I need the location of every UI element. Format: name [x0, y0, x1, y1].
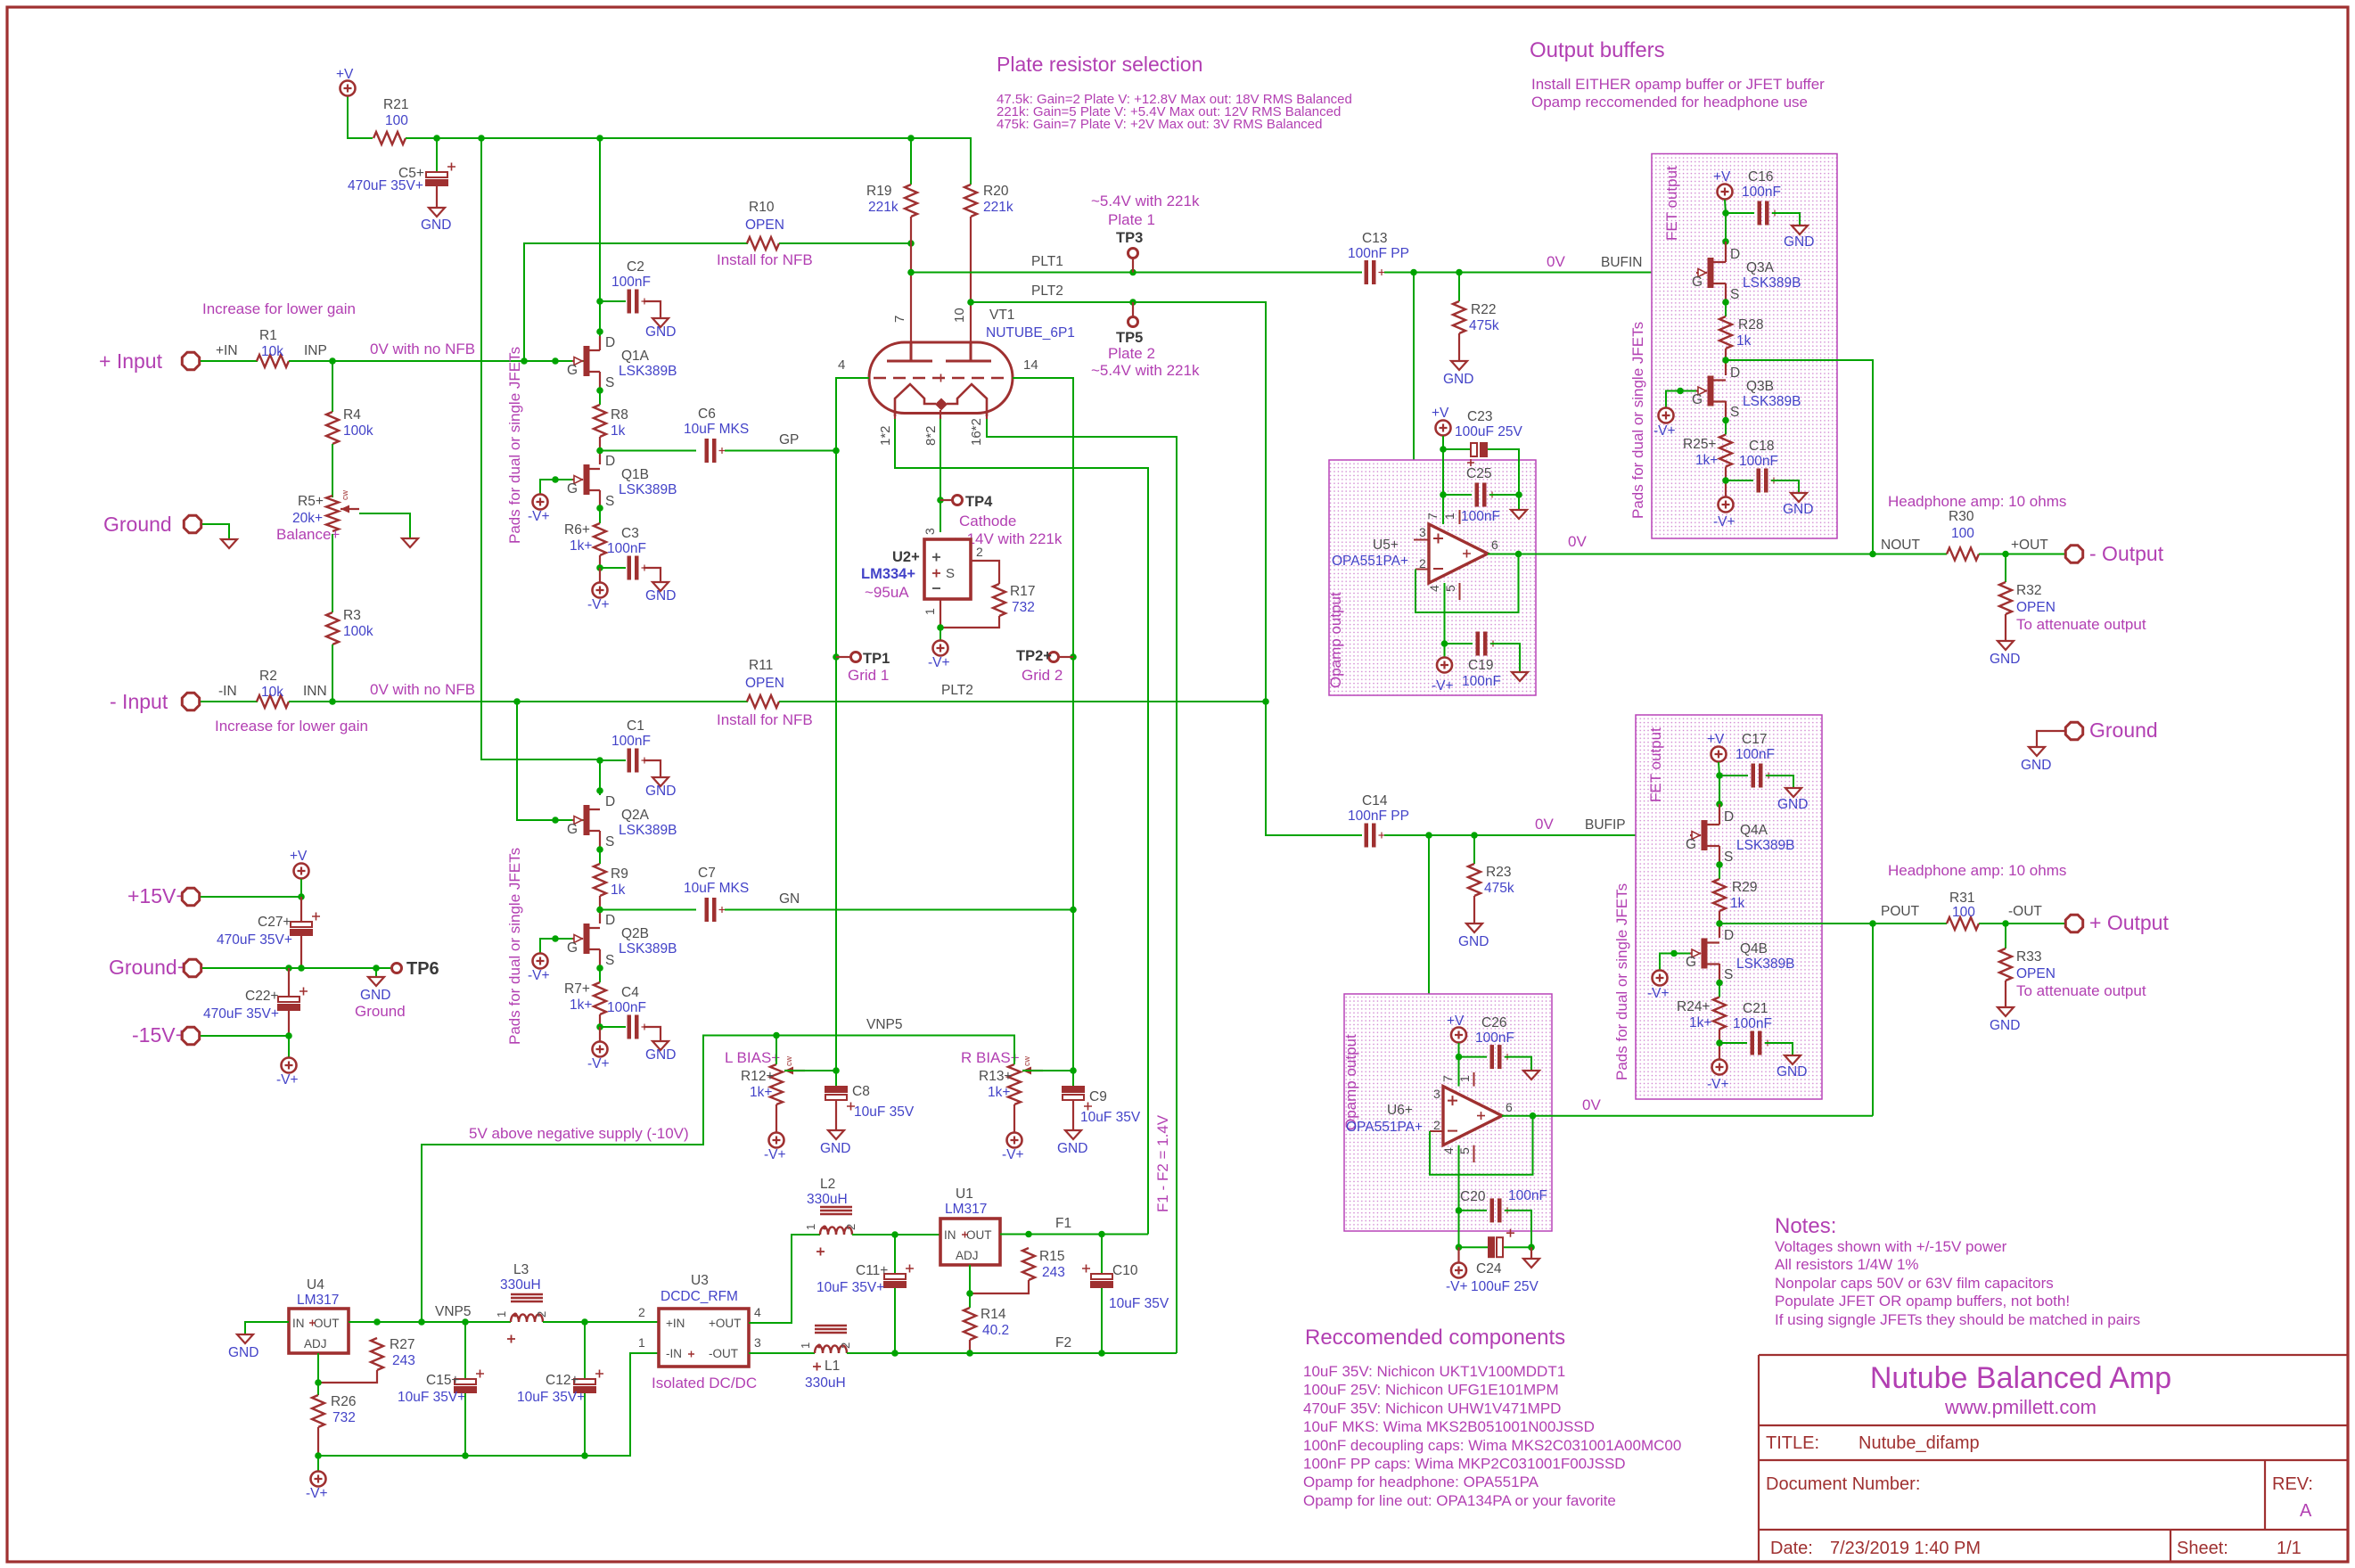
tube grid dashed electrode	[874, 377, 1008, 380]
svg-text:C20: C20	[1460, 1189, 1486, 1204]
svg-text:OUT: OUT	[314, 1317, 340, 1330]
svg-text:VNP5: VNP5	[866, 1017, 903, 1032]
junction	[1425, 832, 1432, 839]
svg-text:D: D	[605, 913, 615, 928]
ground at C2	[652, 318, 669, 327]
resistor R30	[1947, 548, 1979, 561]
ground at C21	[1785, 1055, 1801, 1064]
junction	[907, 135, 915, 142]
resistor R19	[905, 185, 917, 217]
svg-text:Voltages shown with +/-15V pow: Voltages shown with +/-15V power	[1775, 1238, 2007, 1255]
junction C25	[1440, 491, 1447, 498]
svg-text:GND: GND	[1458, 934, 1489, 949]
svg-text:U6+: U6+	[1387, 1103, 1413, 1118]
title block outline	[1759, 1355, 2348, 1562]
svg-text:LM317: LM317	[297, 1293, 339, 1308]
svg-text:100: 100	[385, 113, 408, 128]
test point TP4	[953, 496, 963, 505]
wire C15 down	[464, 1393, 466, 1456]
junction Q2A source	[596, 846, 603, 853]
svg-text:3: 3	[754, 1335, 761, 1350]
svg-text:Nutube_difamp: Nutube_difamp	[1859, 1433, 1980, 1453]
svg-text:Pads for dual or single JFETs: Pads for dual or single JFETs	[1629, 322, 1646, 519]
junction TP5	[1129, 299, 1136, 306]
junction C17	[1716, 772, 1723, 779]
svg-text:10uF MKS: 10uF MKS	[684, 422, 749, 437]
power +V Q3	[1718, 185, 1733, 200]
wire to C8	[835, 1071, 837, 1088]
svg-text:TP3: TP3	[1116, 230, 1143, 246]
wire F1 row	[1000, 1234, 1148, 1236]
svg-text:+15V+: +15V+	[127, 884, 188, 907]
ground at C1	[652, 777, 669, 786]
svg-text:Ground: Ground	[355, 1003, 406, 1020]
svg-text:0V with no NFB: 0V with no NFB	[370, 341, 475, 357]
ground at C17	[1785, 788, 1801, 797]
svg-text:cw: cw	[341, 490, 349, 501]
wire U2 pin1 down	[940, 599, 941, 628]
wire to R26	[317, 1383, 319, 1395]
svg-text:R22: R22	[1471, 302, 1496, 317]
svg-text:TP6: TP6	[406, 959, 439, 979]
svg-text:D: D	[1730, 365, 1740, 381]
svg-text:100nF: 100nF	[611, 734, 651, 749]
svg-text:If using signgle JFETs they sh: If using signgle JFETs they should be ma…	[1775, 1311, 2140, 1328]
wire U3 +OUT to L2	[749, 1235, 820, 1323]
wire U4 ADJ	[317, 1353, 319, 1383]
power -V below R24	[1712, 1060, 1727, 1075]
svg-text:LSK389B: LSK389B	[1743, 394, 1801, 409]
wire PLT2 lower	[779, 701, 1266, 702]
svg-text:732: 732	[332, 1410, 356, 1425]
junction	[1677, 388, 1684, 395]
svg-text:R23: R23	[1486, 865, 1511, 880]
svg-text:1: 1	[495, 1311, 508, 1318]
svg-text:Nonpolar caps 50V or 63V film: Nonpolar caps 50V or 63V film capacitors	[1775, 1275, 2054, 1292]
pin 1 stub U6	[1473, 1072, 1475, 1087]
wire R4 to R5	[332, 444, 333, 497]
svg-text:C1: C1	[627, 718, 644, 734]
junction -15V	[285, 1032, 292, 1039]
wire U6 feedback	[1430, 1116, 1533, 1175]
svg-text:-OUT: -OUT	[2008, 904, 2042, 919]
svg-text:C2: C2	[627, 259, 644, 275]
svg-text:S: S	[1730, 287, 1739, 302]
svg-text:C16: C16	[1748, 169, 1773, 185]
wire R20 to tube pin 10	[970, 217, 972, 358]
wire C2 to gnd	[644, 301, 661, 318]
wire GN right	[725, 909, 1073, 911]
current source U2 LM334	[924, 539, 971, 599]
ground below C5	[429, 208, 445, 217]
opamp output block U6	[1344, 994, 1552, 1231]
svg-text:Document Number:: Document Number:	[1766, 1474, 1920, 1494]
svg-text:TP4: TP4	[965, 494, 993, 510]
wire R7 to C4 node	[599, 1014, 601, 1027]
junction grid2 bias	[1070, 1067, 1077, 1074]
svg-text:10: 10	[952, 308, 967, 323]
wire C17 left	[1719, 775, 1748, 776]
svg-text:~95uA: ~95uA	[865, 584, 909, 601]
wire -V to Q1B gate	[540, 480, 572, 494]
ground at Ground port	[221, 539, 237, 548]
wire C26 right	[1505, 1057, 1531, 1071]
U2 internal symbols	[932, 554, 940, 562]
power -V at Q1B gate	[533, 495, 548, 510]
svg-text:VT1: VT1	[989, 308, 1014, 323]
svg-text:R13+: R13+	[979, 1069, 1013, 1084]
power -V below R12	[769, 1133, 784, 1148]
svg-text:All resistors 1/4W 1%: All resistors 1/4W 1%	[1775, 1256, 1919, 1273]
junction Q3A drain	[1722, 238, 1729, 245]
svg-text:To attenuate output: To attenuate output	[2016, 982, 2146, 999]
resistor R15	[1022, 1248, 1035, 1280]
svg-text:Q2A: Q2A	[621, 808, 650, 823]
svg-text:Output buffers: Output buffers	[1530, 38, 1665, 62]
wire R23 to gnd	[1473, 896, 1475, 924]
svg-text:R19: R19	[866, 184, 891, 199]
svg-text:+IN: +IN	[666, 1317, 685, 1330]
svg-text:R3: R3	[343, 608, 361, 623]
wire Q2A source to R9	[599, 850, 601, 864]
wire U1 ADJ	[969, 1265, 971, 1293]
svg-text:732: 732	[1012, 600, 1035, 615]
svg-text:100nF: 100nF	[607, 1000, 646, 1015]
svg-text:100nF: 100nF	[607, 541, 646, 556]
svg-text:VNP5: VNP5	[435, 1304, 472, 1319]
junction	[478, 135, 485, 142]
svg-text:G: G	[567, 940, 578, 956]
svg-text:BUFIN: BUFIN	[1601, 255, 1643, 270]
tube VT1 NUTUBE_6P1 body	[869, 342, 1013, 414]
svg-text:100uF 25V: Nichicon UFG1E101MP: 100uF 25V: Nichicon UFG1E101MPM	[1303, 1382, 1559, 1399]
test point TP2	[1049, 653, 1059, 662]
wire grid1 vertical	[835, 451, 837, 1071]
wire to R33	[2005, 924, 2006, 948]
capacitor C23	[1471, 443, 1477, 456]
junction	[1410, 269, 1417, 276]
svg-text:100nF: 100nF	[1735, 747, 1775, 762]
capacitor C9	[1062, 1086, 1085, 1093]
svg-text:GND: GND	[645, 784, 676, 799]
svg-text:Plate 1: Plate 1	[1108, 211, 1155, 228]
svg-text:Sheet:: Sheet:	[2177, 1539, 2228, 1558]
wire +V to U5 pin7	[1442, 449, 1444, 524]
svg-text:REV:: REV:	[2272, 1474, 2313, 1494]
junction C16	[1722, 209, 1729, 217]
wire INN to Q2A gate	[517, 702, 584, 820]
svg-text:R20: R20	[983, 184, 1009, 199]
ground at C24	[1523, 1259, 1539, 1268]
wire GP right	[725, 450, 836, 452]
svg-text:470uF 35V+: 470uF 35V+	[203, 1006, 279, 1022]
wire R12 to -V	[775, 1104, 777, 1132]
resistor R10	[747, 237, 779, 250]
resistor R21	[373, 132, 406, 144]
svg-text:100uF 25V: 100uF 25V	[1455, 424, 1522, 439]
resistor R8	[594, 405, 606, 437]
svg-text:1k+: 1k+	[570, 997, 592, 1013]
resistor R1	[257, 355, 289, 367]
junction	[1471, 832, 1478, 839]
svg-text:C13: C13	[1362, 231, 1387, 246]
svg-text:Q2B: Q2B	[621, 926, 649, 941]
svg-text:- Input: - Input	[110, 690, 168, 713]
svg-text:NOUT: NOUT	[1881, 538, 1920, 553]
svg-text:D: D	[1730, 247, 1740, 262]
wire rail to Q2A drain	[481, 138, 600, 795]
wire U5 feedback	[1415, 554, 1519, 613]
capacitor C16	[1758, 201, 1762, 226]
junction	[433, 135, 440, 142]
wire -V to Q3B gate	[1666, 391, 1696, 408]
wire +IN	[201, 360, 258, 362]
power -V below U2	[933, 641, 948, 656]
junction Q3 out	[1722, 357, 1729, 364]
resistor R2	[257, 695, 289, 708]
svg-text:-V+: -V+	[1446, 1279, 1468, 1294]
wire +OUT	[1979, 554, 2065, 555]
svg-text:C15+: C15+	[426, 1373, 460, 1388]
wire R27 bottom	[318, 1370, 377, 1383]
wire Q2B source to R7	[599, 968, 601, 982]
wire to R14	[969, 1293, 971, 1308]
svg-text:100nF: 100nF	[1739, 454, 1778, 469]
resistor R26	[312, 1395, 324, 1427]
junction C24 right	[1528, 1244, 1535, 1251]
transistor Q3A	[1708, 258, 1714, 288]
pin 5 stub U6	[1473, 1145, 1475, 1162]
svg-text:C22+: C22+	[245, 989, 279, 1004]
svg-text:10uF MKS: Wima MKS2B051001N00J: 10uF MKS: Wima MKS2B051001N00JSSD	[1303, 1418, 1595, 1435]
junction	[373, 1318, 381, 1326]
transistor Q1B	[584, 464, 590, 495]
FET output block Q4	[1636, 715, 1822, 1099]
junction GP node	[596, 447, 603, 455]
svg-text:POUT: POUT	[1881, 904, 1920, 919]
junction +15V	[298, 893, 305, 900]
svg-text:IN: IN	[292, 1317, 305, 1330]
svg-text:S: S	[605, 953, 614, 968]
ground at C25	[1511, 510, 1527, 519]
wire ground rail	[202, 967, 392, 969]
resistor R32	[1999, 582, 2012, 614]
svg-text:10uF 35V: 10uF 35V	[1080, 1110, 1141, 1125]
pin 2 stub U5	[1415, 569, 1429, 571]
junction TP2	[1070, 653, 1077, 661]
wire C12 down	[584, 1393, 586, 1456]
resistor R22	[1453, 301, 1465, 333]
svg-text:-V+: -V+	[1432, 678, 1454, 694]
svg-text:GND: GND	[1057, 1141, 1087, 1156]
wire R9 to GN	[599, 896, 601, 924]
svg-text:330uH: 330uH	[805, 1375, 846, 1391]
svg-text:-V+: -V+	[587, 1056, 610, 1071]
svg-text:R10: R10	[749, 200, 775, 215]
ground below C9	[1065, 1130, 1081, 1139]
svg-text:7: 7	[892, 316, 907, 323]
svg-text:1: 1	[799, 1342, 812, 1349]
power +V symbol	[341, 81, 356, 96]
port Ground ps	[184, 959, 201, 976]
wire to -V	[288, 1036, 290, 1057]
svg-text:C7: C7	[698, 866, 716, 881]
wire to gnd C24	[1530, 1247, 1532, 1259]
junction	[285, 965, 292, 972]
test point TP5	[1128, 317, 1138, 327]
capacitor C1	[628, 749, 632, 773]
svg-text:-V+: -V+	[1713, 514, 1735, 530]
svg-text:470uF 35V+: 470uF 35V+	[217, 932, 292, 948]
svg-text:D: D	[605, 335, 615, 350]
wire INP to Q1A gate	[289, 360, 584, 362]
capacitor C27	[291, 922, 312, 927]
svg-text:100nF PP: 100nF PP	[1348, 246, 1409, 261]
svg-text:OPEN: OPEN	[745, 218, 784, 233]
svg-text:L3: L3	[513, 1262, 529, 1277]
svg-text:470uF 35V: Nichicon UHW1V471MP: 470uF 35V: Nichicon UHW1V471MPD	[1303, 1400, 1561, 1416]
svg-text:R26: R26	[331, 1394, 356, 1409]
wire to C22	[288, 968, 290, 998]
junction Q3A source	[1722, 299, 1729, 306]
wire U6 pin4	[1458, 1145, 1460, 1248]
svg-text:IN: IN	[944, 1228, 956, 1242]
svg-text:GND: GND	[645, 1047, 676, 1063]
svg-text:OPEN: OPEN	[2016, 600, 2055, 615]
wire to C15	[464, 1322, 466, 1381]
ground below R22	[1451, 361, 1467, 370]
wire C16 left	[1726, 212, 1754, 214]
wire Q1B source	[599, 490, 601, 508]
junction	[329, 357, 336, 365]
svg-text:cw: cw	[784, 1056, 793, 1067]
wire to R28	[1725, 302, 1727, 316]
svg-text:10uF 35V+: 10uF 35V+	[517, 1390, 585, 1405]
capacitor C17	[1752, 764, 1756, 788]
FET output block Q3	[1652, 154, 1837, 539]
wire Q3A source	[1725, 283, 1727, 302]
ground at C26	[1523, 1071, 1539, 1080]
svg-text:100uF 25V: 100uF 25V	[1471, 1279, 1539, 1294]
svg-text:+V: +V	[1713, 169, 1731, 185]
wire tube grid2 pin 14	[1013, 378, 1073, 910]
svg-text:Cathode: Cathode	[959, 513, 1016, 530]
junction	[1098, 1231, 1105, 1238]
svg-text:-V+: -V+	[528, 509, 550, 524]
wire R19 to tube pin 7	[910, 217, 912, 358]
svg-text:7/23/2019 1:40 PM: 7/23/2019 1:40 PM	[1830, 1539, 1981, 1558]
svg-text:L1: L1	[825, 1359, 840, 1374]
svg-text:C24: C24	[1476, 1261, 1502, 1277]
svg-text:Q3A: Q3A	[1746, 260, 1775, 275]
junction	[418, 1318, 425, 1326]
resistor R7	[594, 982, 606, 1014]
wire C19 right	[1490, 644, 1520, 672]
svg-text:+V: +V	[1447, 1014, 1465, 1029]
transistor Q3B	[1708, 376, 1714, 406]
wire Q2B source	[599, 949, 601, 968]
opamp output block U5	[1329, 460, 1536, 695]
wire Q3 output to NOUT	[1726, 360, 1873, 554]
wire +V to R21	[348, 96, 373, 138]
ground below R33	[1998, 1007, 2014, 1016]
svg-text:-V+: -V+	[587, 597, 610, 612]
power -V below R25	[1719, 497, 1734, 513]
svg-text:LSK389B: LSK389B	[619, 482, 677, 497]
svg-text:GND: GND	[360, 988, 390, 1003]
wire C16 right	[1772, 213, 1800, 226]
junction	[521, 357, 528, 365]
wire rail to R19	[910, 138, 912, 185]
svg-text:40.2: 40.2	[982, 1323, 1009, 1338]
tube plate 2 electrode	[946, 342, 991, 361]
svg-text:100k: 100k	[343, 624, 373, 639]
junction TP1	[833, 653, 840, 661]
svg-text:Ground+: Ground+	[109, 956, 189, 979]
wire tube cathode leads	[894, 413, 896, 419]
wire filament F1	[895, 419, 1148, 1235]
svg-text:S: S	[1730, 405, 1739, 420]
junction GN grid2	[1070, 907, 1077, 914]
svg-text:U1: U1	[956, 1186, 973, 1202]
wire to C9	[1072, 1071, 1074, 1088]
wire C11 down	[894, 1288, 896, 1353]
svg-text:D: D	[605, 794, 615, 809]
power -V at Q4B gate	[1653, 971, 1668, 986]
junction C19	[1441, 640, 1448, 647]
wire BUFIP	[1384, 834, 1691, 836]
svg-text:+IN: +IN	[216, 343, 238, 358]
svg-text:F1: F1	[1055, 1216, 1071, 1231]
capacitor C3	[628, 556, 632, 580]
resistor R6	[594, 523, 606, 555]
svg-text:GND: GND	[820, 1141, 850, 1156]
svg-text:LSK389B: LSK389B	[619, 364, 677, 379]
resistor R9	[594, 864, 606, 896]
svg-text:FET output: FET output	[1663, 166, 1680, 241]
wire C23 right	[1488, 449, 1519, 495]
junction	[1098, 1350, 1105, 1357]
svg-text:A: A	[2300, 1501, 2312, 1521]
junction	[552, 935, 559, 942]
wire to C1	[600, 759, 626, 761]
wire +15V	[201, 896, 301, 898]
svg-text:S: S	[605, 375, 614, 390]
wire ground right	[2037, 731, 2065, 747]
svg-text:6: 6	[1491, 538, 1498, 552]
wire TP2 lead	[1059, 656, 1073, 658]
svg-text:1k: 1k	[1736, 333, 1752, 349]
junction POUT	[1869, 920, 1876, 927]
wire R26 bottom	[317, 1427, 319, 1456]
wire L2 to U1 IN	[852, 1234, 940, 1236]
svg-text:C21: C21	[1743, 1001, 1768, 1016]
wire to -V U6	[1457, 1247, 1459, 1262]
junction C25 gnd	[1515, 491, 1522, 498]
svg-text:100: 100	[1951, 526, 1974, 541]
svg-text:PLT1: PLT1	[1031, 254, 1063, 269]
junction C4 node	[596, 1023, 603, 1030]
svg-text:R9: R9	[611, 866, 628, 882]
resistor R11	[747, 695, 779, 708]
svg-text:G: G	[1686, 955, 1696, 970]
svg-text:-15V+: -15V+	[132, 1023, 187, 1047]
wire grid2 vertical	[1072, 910, 1074, 1071]
svg-text:100nF decoupling caps: Wima MK: 100nF decoupling caps: Wima MKS2C031001A…	[1303, 1437, 1681, 1454]
capacitor C4	[628, 1015, 632, 1039]
wire F2 row	[847, 1352, 1177, 1354]
wire to R23	[1473, 835, 1475, 864]
